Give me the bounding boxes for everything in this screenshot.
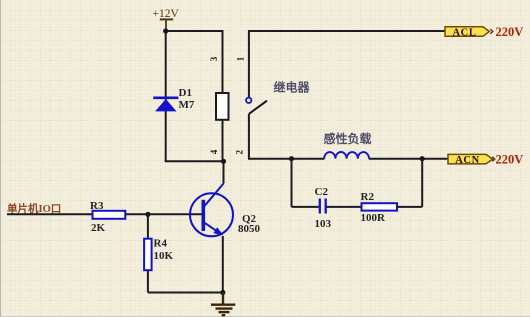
diode D1 — [153, 98, 178, 112]
switch blade — [249, 101, 267, 114]
node collector junction — [221, 159, 226, 164]
switch contact circle — [246, 98, 251, 103]
svg-text:C2: C2 — [315, 186, 329, 198]
svg-text:R3: R3 — [90, 200, 104, 212]
wire R2 to right branch — [397, 159, 422, 207]
node load-right junction — [420, 156, 425, 161]
wire diode bottom to collector node — [165, 160, 224, 162]
node load-left junction — [289, 156, 294, 161]
node base junction — [145, 212, 150, 217]
resistor R4 — [144, 239, 152, 271]
svg-text:M7: M7 — [179, 99, 195, 111]
svg-text:2K: 2K — [91, 222, 106, 234]
ACN port arrow mark — [492, 157, 495, 162]
svg-text:感性负载: 感性负载 — [324, 131, 372, 146]
node +12V junction — [163, 28, 168, 33]
resistor R2 — [362, 203, 398, 210]
snubber left branch wire — [292, 159, 319, 207]
power port +12V — [153, 8, 180, 31]
svg-text:100R: 100R — [361, 212, 387, 224]
load rail wire — [248, 158, 448, 160]
connector ACN — [448, 154, 493, 166]
connector ACL — [445, 27, 489, 39]
wire +12V node to coil top rail — [166, 30, 223, 32]
wire coil bottom vertical — [222, 120, 224, 162]
svg-text:2: 2 — [234, 150, 244, 155]
svg-text:D1: D1 — [179, 87, 192, 99]
wire switch to ACL — [248, 30, 445, 32]
svg-text:4: 4 — [209, 149, 219, 154]
emitter wire down — [222, 236, 224, 293]
R4 branch wire top — [147, 214, 149, 238]
svg-text:220V: 220V — [496, 25, 524, 39]
capacitor C2 — [320, 199, 326, 214]
transistor Q2 — [190, 184, 233, 237]
inductor L (inductive load) — [324, 152, 369, 159]
svg-text:单片机IO口: 单片机IO口 — [7, 202, 61, 215]
relay coil — [216, 93, 229, 120]
relay switch wire top — [248, 31, 250, 97]
svg-text:ACN: ACN — [455, 155, 480, 166]
resistor R3 — [93, 211, 126, 219]
wire +12V down through diode — [165, 31, 167, 161]
node emitter-ground junction — [220, 290, 225, 295]
wire collector node down — [223, 161, 225, 183]
svg-text:R2: R2 — [361, 191, 375, 203]
svg-text:220V: 220V — [496, 153, 524, 167]
svg-text:R4: R4 — [154, 237, 168, 249]
svg-text:1: 1 — [235, 56, 245, 61]
wire coil top vertical — [222, 30, 224, 93]
svg-text:8050: 8050 — [238, 223, 261, 235]
wire C2 to R2 — [327, 206, 362, 208]
svg-text:继电器: 继电器 — [274, 80, 311, 95]
wire switch bottom — [248, 114, 250, 159]
base rail wire left — [7, 213, 93, 215]
svg-text:+12V: +12V — [153, 8, 180, 20]
svg-text:10K: 10K — [154, 250, 174, 262]
svg-text:ACL: ACL — [453, 27, 477, 38]
base rail wire right — [125, 213, 202, 215]
ground — [211, 293, 235, 316]
R4 branch wire bottom — [148, 270, 223, 292]
screen edge artifacts — [0, 0, 2, 317]
svg-text:103: 103 — [315, 218, 332, 230]
svg-text:3: 3 — [209, 56, 219, 61]
ACL port arrow mark — [490, 29, 493, 34]
